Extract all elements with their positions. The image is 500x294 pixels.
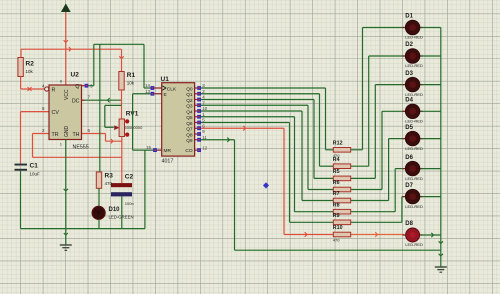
svg-text:U1: U1 [161,76,170,83]
svg-text:R2: R2 [26,61,35,68]
svg-text:D2: D2 [405,42,413,48]
svg-text:Q1: Q1 [186,92,193,98]
svg-text:D4: D4 [405,98,413,104]
svg-text:D8: D8 [405,221,413,227]
svg-text:LED-RED: LED-RED [405,204,423,209]
svg-text:D7: D7 [405,183,413,189]
svg-text:R8: R8 [333,202,340,208]
svg-text:470: 470 [333,238,340,243]
svg-text:GND: GND [64,126,70,138]
svg-text:Q3: Q3 [186,104,193,110]
svg-text:13: 13 [145,89,150,94]
svg-text:10k: 10k [26,69,34,74]
svg-text:MR: MR [164,148,172,154]
svg-text:TH: TH [72,132,79,138]
svg-text:R5: R5 [333,169,340,175]
svg-text:LED-RED: LED-RED [405,176,423,181]
svg-text:R6: R6 [333,180,340,186]
svg-text:R12: R12 [333,141,343,147]
svg-text:10k: 10k [127,81,135,86]
svg-text:470: 470 [105,181,113,186]
svg-text:R: R [52,87,56,93]
svg-text:Q0: Q0 [186,86,193,92]
svg-text:Q8: Q8 [186,132,193,138]
svg-text:C1: C1 [30,163,39,170]
svg-text:C2: C2 [125,174,134,181]
svg-text:15: 15 [146,145,151,150]
svg-text:R3: R3 [105,173,114,180]
svg-text:Q: Q [75,84,79,90]
svg-text:LED-RED: LED-RED [405,35,423,40]
svg-text:VCC: VCC [64,89,70,100]
svg-text:D6: D6 [405,155,413,161]
svg-text:LED-RED: LED-RED [405,119,423,124]
svg-text:R10: R10 [333,225,343,231]
svg-text:TR: TR [52,132,59,138]
svg-text:R1: R1 [127,72,136,79]
svg-text:CLK: CLK [167,86,177,92]
svg-text:D10: D10 [109,207,121,213]
svg-text:NE555: NE555 [73,144,89,150]
svg-text:10uF: 10uF [30,172,41,177]
svg-text:D5: D5 [405,125,413,131]
svg-text:Q4: Q4 [186,109,193,115]
svg-text:LED-GREEN: LED-GREEN [109,215,134,220]
svg-text:R7: R7 [333,191,340,197]
svg-text:E: E [164,92,167,98]
svg-text:CO: CO [185,148,192,154]
svg-text:CV: CV [52,110,60,116]
svg-text:Q9: Q9 [186,138,193,144]
svg-text:4017: 4017 [162,159,174,165]
svg-text:R9: R9 [333,213,340,219]
svg-text:Q2: Q2 [186,98,193,104]
svg-text:LED-RED: LED-RED [405,92,423,97]
svg-text:D1: D1 [405,14,413,20]
svg-text:LED-RED: LED-RED [405,146,423,151]
svg-text:12: 12 [202,146,207,151]
svg-text:Q5: Q5 [186,115,193,121]
svg-text:DC: DC [72,99,80,105]
svg-text:470: 470 [333,153,340,158]
svg-text:Q7: Q7 [186,127,193,133]
svg-text:LED-RED: LED-RED [405,242,423,247]
svg-text:100n: 100n [125,201,134,206]
svg-text:14: 14 [145,83,150,88]
svg-text:Q6: Q6 [186,121,193,127]
svg-text:50000000: 50000000 [125,125,144,130]
svg-text:LED-RED: LED-RED [405,63,423,68]
svg-text:U2: U2 [71,72,80,79]
svg-text:D3: D3 [405,71,413,77]
